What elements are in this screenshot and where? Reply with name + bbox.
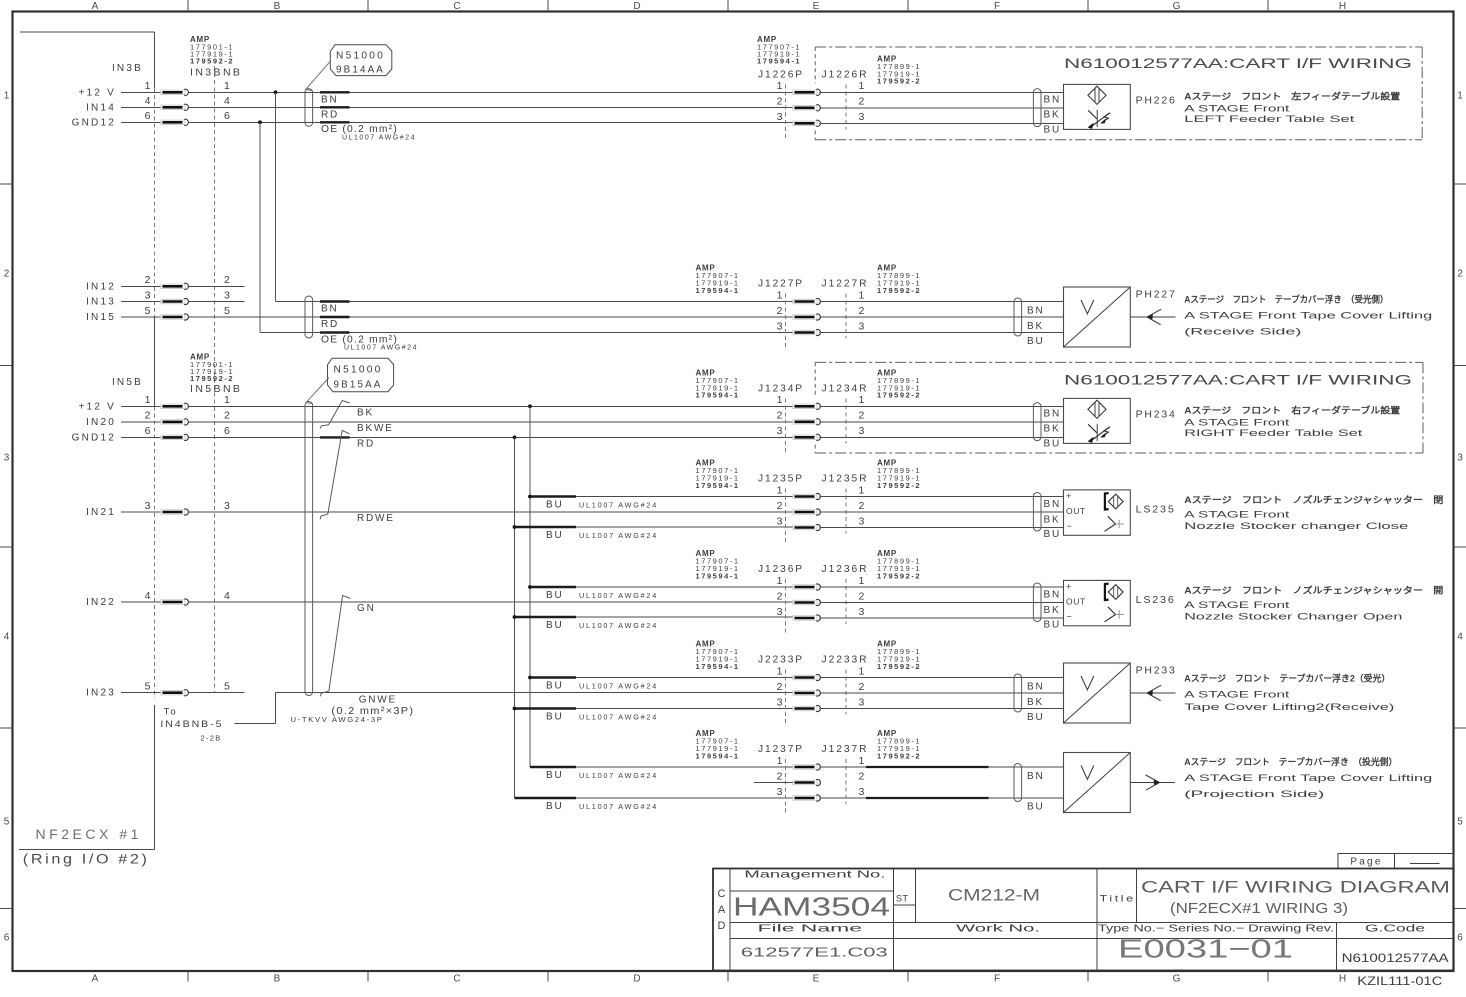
AMP part labels J1234P [696,368,740,399]
svg-text:2: 2 [145,410,151,422]
svg-text:179592-2: 179592-2 [877,391,921,400]
svg-text:3: 3 [777,606,783,618]
svg-text:6: 6 [4,933,10,944]
svg-text:2: 2 [859,96,865,108]
svg-text:F: F [994,1,1000,12]
junction dot BU+ branch y677.5 [528,676,532,680]
bold BU lead y587 [530,586,576,588]
svg-text:5: 5 [145,305,151,317]
NF2ECX pin 5 (IN15) label and lead [86,305,230,323]
svg-text:1: 1 [1457,91,1463,102]
wire J1226 pin1 to sensor [820,91,1064,93]
svg-text:4: 4 [224,590,230,602]
svg-text:1: 1 [859,394,865,406]
svg-text:IN22: IN22 [86,597,116,608]
svg-text:A STAGE Front: A STAGE Front [1184,600,1290,611]
svg-text:J1226P: J1226P [758,69,804,81]
contact J1226P pin 1 [793,89,820,95]
svg-text:BU: BU [546,801,564,812]
bold wire lead BN block2 [320,300,350,302]
wire colour labels PH234 [1044,409,1062,450]
NF2ECX pin 3 (IN21) label and lead [86,500,230,518]
svg-text:Aステージ フロント 右フィーダテーブル設置: Aステージ フロント 右フィーダテーブル設置 [1184,404,1400,415]
svg-text:3: 3 [224,500,230,512]
svg-text:BU: BU [546,590,564,601]
connector J1236P dashed body [785,579,787,634]
svg-text:UL1007 AWG#24: UL1007 AWG#24 [579,591,658,600]
pin numbers J2233P pin 2 [777,681,865,693]
svg-text:+: + [1066,582,1071,592]
contact J2233P pin 1 [793,674,820,680]
wire GND12 to J1226P pin3 [188,121,793,123]
svg-text:Tape Cover Lifting2(Receive): Tape Cover Lifting2(Receive) [1184,702,1394,713]
page number box [1338,854,1454,869]
svg-text:6: 6 [145,425,151,437]
bold wire lead RD block3 [320,436,350,438]
svg-text:(Projection Side): (Projection Side) [1184,789,1324,800]
svg-text:Title: Title [1100,893,1136,904]
frame column ticks bottom [188,971,1268,982]
frame row numbers right [1457,91,1463,944]
wire BN to J1227P pin1 [276,301,794,303]
wire vertical GND12 to OE J1227 [259,122,261,332]
svg-text:G.Code: G.Code [1365,923,1425,935]
wire J1235 pin1 to sensor [820,496,1064,498]
svg-text:3: 3 [224,289,230,301]
pin numbers J1227P pin 3 [777,320,865,332]
contact J1237P pin 2 [793,779,820,785]
drawing title CART I/F WIRING DIAGRAM [1141,878,1450,918]
wire IN14 to J1226P pin2 [188,106,793,108]
svg-text:E: E [813,1,820,12]
svg-text:3: 3 [777,696,783,708]
description PH233 english [1184,689,1394,713]
label CAD [718,888,726,932]
svg-text:A: A [92,974,99,985]
NF2ECX connector body dashed line left lower [154,406,156,698]
svg-text:BU: BU [1027,336,1045,347]
svg-text:A STAGE Front: A STAGE Front [1184,418,1290,429]
junction dot BU+ branch y496.5 [528,495,532,499]
svg-text:1: 1 [859,484,865,496]
svg-text:IN15: IN15 [86,312,116,323]
svg-text:BK: BK [1044,110,1061,121]
title block outline [713,869,1454,971]
wire IN22 to J1236P pin2 [188,601,793,603]
svg-text:1: 1 [859,289,865,301]
contact J1227P pin 1 [793,298,820,304]
svg-text:UL1007 AWG#24: UL1007 AWG#24 [579,621,658,630]
pin numbers J1236P pin 2 [777,590,865,602]
pin numbers J1235P pin 3 [777,515,865,527]
contact J2233P pin 3 [793,705,820,711]
svg-text:6: 6 [224,110,230,122]
svg-text:2: 2 [859,500,865,512]
wire J1226 pin2 to sensor [820,107,1064,109]
svg-text:4: 4 [145,95,151,107]
wire J1236 pin3 to sensor [820,617,1064,619]
svg-text:F: F [994,974,1000,985]
svg-text:NF2ECX #1: NF2ECX #1 [36,827,143,842]
connector J1234R dashed body [845,398,847,443]
svg-text:A STAGE Front: A STAGE Front [1184,104,1290,115]
svg-text:BN: BN [1027,771,1045,782]
svg-text:3: 3 [145,500,151,512]
AMP part labels J1236P [696,549,740,580]
contact J1236P pin 1 [793,584,820,590]
svg-text:C: C [453,1,460,12]
label To IN4BNB-5 [160,707,223,743]
frame column letters bottom [92,974,1346,985]
junction dot BU+ branch y587 [528,585,532,589]
AMP part labels J1226R [877,54,921,85]
label BU UL1007 AWG#24 y767 [546,770,658,781]
svg-text:1: 1 [777,575,783,587]
svg-text:RD: RD [357,438,375,449]
pin numbers J1234P pin 3 [777,425,865,437]
svg-text:2: 2 [859,590,865,602]
AMP part labels J1227R [877,264,921,295]
junction dot BU- branch y527 [513,525,517,529]
svg-text:5: 5 [145,681,151,693]
svg-text:D: D [718,920,726,932]
svg-text:IN3BNB: IN3BNB [190,67,242,79]
amplifier sensor PH227 box [1064,287,1131,347]
label BU UL1007 AWG#24 y496.5 [546,499,658,510]
svg-text:(Receive Side): (Receive Side) [1184,327,1301,338]
connector J1234P dashed body [785,398,787,453]
svg-text:179592-2: 179592-2 [877,286,921,295]
label GNWE cable spec [291,695,415,724]
svg-text:9B15AA: 9B15AA [334,378,383,390]
svg-text:2: 2 [859,410,865,422]
svg-text:PH234: PH234 [1136,409,1177,421]
label OE (0.2 mm2) block2 [321,335,418,352]
label BU UL1007 AWG#24 y587 [546,590,658,601]
bold BU lead y677.5 [530,676,576,678]
svg-text:J2233P: J2233P [758,654,804,666]
leader from balloon to cable block1 [306,61,331,91]
NF2ECX pin 1 (+12 V) label and lead [79,80,230,98]
junction dot +12V row3 distribution [528,404,532,408]
description PH226 english [1184,104,1355,126]
AMP part labels J1235R [877,459,921,490]
svg-text:1: 1 [777,665,783,677]
cable bundle at PH234 [1033,403,1041,441]
svg-text:BU: BU [546,530,564,541]
svg-text:File Name: File Name [758,923,863,935]
wire J2233 pin1 to sensor [820,677,1064,679]
wire IN12 stub [188,285,244,287]
svg-text:Nozzle Stocker Changer Open: Nozzle Stocker Changer Open [1184,612,1402,623]
svg-text:IN23: IN23 [86,688,116,699]
contact J1235P pin 2 [793,509,820,515]
svg-text:179594-1: 179594-1 [696,391,740,400]
svg-text:1: 1 [859,665,865,677]
NF2ECX pin 6 (GND12) label and lead [72,425,230,443]
svg-text:BU: BU [1027,801,1045,812]
svg-text:J1226R: J1226R [822,69,869,81]
svg-text:179592-2: 179592-2 [877,481,921,490]
svg-text:Management No.: Management No. [744,868,885,880]
svg-text:3: 3 [859,515,865,527]
AMP part labels J1234R [877,368,921,399]
wire J1234 pin3 to sensor [820,436,1064,438]
svg-text:2: 2 [777,681,783,693]
contact pin 3 IN13 [161,298,188,304]
svg-text:IN4BNB-5: IN4BNB-5 [160,719,223,730]
connector J1227R dashed body [845,294,847,339]
frame column letters top [92,1,1346,12]
svg-text:Work No.: Work No. [956,923,1040,935]
svg-text:5: 5 [1457,817,1463,828]
svg-text:GND12: GND12 [72,117,116,128]
svg-text:UL1007 AWG#24: UL1007 AWG#24 [579,531,658,540]
svg-text:A STAGE Front Tape Cover Lifti: A STAGE Front Tape Cover Lifting [1184,773,1432,784]
svg-text:3: 3 [777,111,783,123]
contact J1237P pin 3 [793,795,820,801]
svg-text:179594-1: 179594-1 [696,286,740,295]
svg-text:BN: BN [1027,305,1045,316]
svg-text:GND12: GND12 [72,432,116,443]
svg-text:5: 5 [224,681,230,693]
pin numbers J1237P pin 3 [777,786,865,798]
svg-text:Page: Page [1350,857,1382,868]
wire colour labels projection sensor [1027,771,1045,813]
svg-text:(Ring I/O #2): (Ring I/O #2) [23,852,150,867]
svg-text:N610012577AA:CART I/F WIRING: N610012577AA:CART I/F WIRING [1064,371,1412,387]
svg-text:2: 2 [777,96,783,108]
svg-text:RDWE: RDWE [357,513,395,524]
svg-text:C: C [453,974,460,985]
svg-text:4: 4 [145,590,151,602]
svg-text:2-2B: 2-2B [201,734,222,743]
wire J1235 pin3 to sensor [820,527,1064,529]
svg-text:1: 1 [145,394,151,406]
projection arrow out of sensor [1130,775,1175,790]
bold BU lead y496.5 [530,495,576,497]
svg-text:4: 4 [1457,632,1463,643]
leader from balloon to cable block3 [306,378,329,404]
svg-text:179594-1: 179594-1 [696,571,740,580]
AMP part labels J1226P [757,35,801,66]
svg-text:2: 2 [859,681,865,693]
svg-text:N51000: N51000 [336,50,385,62]
junction dot GND12 branch [258,120,262,124]
frame row numbers left [4,91,10,944]
pin numbers J1236P pin 1 [777,575,865,587]
svg-text:3: 3 [859,696,865,708]
wire IN13 stub [188,301,244,303]
svg-text:BU: BU [1044,620,1062,631]
label BU UL1007 AWG#24 y798 [546,801,658,812]
svg-text:IN5B: IN5B [112,377,143,388]
wire J1235 pin2 to sensor [820,511,1064,513]
svg-text:Aステージ フロント テープカバー浮き （受光側）: Aステージ フロント テープカバー浮き （受光側） [1184,294,1388,305]
svg-text:+: + [1066,491,1071,501]
limit sensor LS235 box [1064,490,1131,535]
bold wire lead RD block1 [320,106,350,108]
cable bundle symbol block1 [305,89,313,127]
photo sensor PH234 box [1064,398,1131,443]
svg-text:UL1007 AWG#24: UL1007 AWG#24 [579,802,658,811]
contact J1227P pin 2 [793,314,820,320]
svg-text:A STAGE Front: A STAGE Front [1184,510,1290,521]
wire J1237 pin2 stub [754,782,793,784]
svg-text:179592-2: 179592-2 [877,77,921,86]
svg-text:179594-1: 179594-1 [757,57,801,66]
svg-text:4: 4 [4,632,10,643]
svg-text:UL1007 AWG#24: UL1007 AWG#24 [579,771,658,780]
bold wire lead RD block2 [320,316,350,318]
svg-text:3: 3 [1457,453,1463,464]
svg-text:+12 V: +12 V [79,401,116,412]
svg-text:BK: BK [1044,605,1061,616]
junction dot GND12 row3 distribution [513,436,517,440]
svg-text:5: 5 [224,305,230,317]
pin numbers J2233P pin 1 [777,665,865,677]
svg-text:2: 2 [777,410,783,422]
svg-text:BU: BU [546,770,564,781]
NF2ECX pin 4 (IN14) label and lead [86,95,230,113]
svg-text:RD: RD [321,319,339,330]
svg-text:J1237P: J1237P [758,743,804,755]
svg-text:CART I/F WIRING DIAGRAM: CART I/F WIRING DIAGRAM [1141,878,1450,897]
NF2ECX connector body dashed line right [214,66,216,692]
svg-text:3: 3 [4,453,10,464]
pin numbers J1237P pin 1 [777,755,865,767]
contact J1235P pin 3 [793,524,820,530]
contact J2233P pin 2 [793,690,820,696]
svg-text:G: G [1173,974,1181,985]
svg-text:J1236R: J1236R [822,563,869,575]
cable bundle at LS235 [1033,493,1041,531]
svg-text:A STAGE Front: A STAGE Front [1184,689,1290,700]
svg-text:BN: BN [321,94,339,105]
svg-text:BU: BU [1044,125,1062,136]
svg-text:J1234P: J1234P [758,383,804,395]
svg-text:BU: BU [546,499,564,510]
svg-text:3: 3 [859,111,865,123]
wire BU+ branch to connector y496.5 [530,496,793,498]
svg-text:6: 6 [1457,933,1463,944]
wire branch from IN4BNB-5 [235,693,276,724]
connector J1237R dashed body [845,759,847,804]
svg-text:1: 1 [777,484,783,496]
svg-text:2: 2 [224,274,230,286]
wire J1227 pin1 to sensor [820,301,1064,303]
svg-text:6: 6 [224,425,230,437]
svg-text:1: 1 [777,394,783,406]
contact pin 5 IN23 [161,690,188,696]
AMP part labels J2233P [696,640,740,671]
svg-text:E0031−01: E0031−01 [1118,933,1293,963]
I/O module NF2ECX #1 outline [19,32,155,849]
svg-text:BKWE: BKWE [357,423,394,434]
svg-text:+12 V: +12 V [79,87,116,98]
svg-text:3: 3 [859,425,865,437]
bold BU lead y798 [515,797,577,799]
bold cable segment J1237 BN [866,766,989,768]
svg-text:Aステージ フロント テープカバー浮き （投光側）: Aステージ フロント テープカバー浮き （投光側） [1184,756,1397,767]
svg-text:UL1007 AWG#24: UL1007 AWG#24 [579,681,658,690]
cable tag balloon N51000 9B15AA [328,358,394,391]
connector J1236R dashed body [845,579,847,624]
contact pin 1 +12 V [161,403,188,409]
svg-text:To: To [164,707,178,718]
description LS236 english [1184,600,1402,622]
wire colour labels LS235 [1044,499,1062,540]
cable bundle at PH226 [1033,89,1041,127]
bold wire lead BN block1 [320,91,350,93]
contact pin 3 IN21 [161,509,188,515]
svg-text:Aステージ フロント ノズルチェンジャシャッター 開: Aステージ フロント ノズルチェンジャシャッター 開 [1184,584,1443,595]
svg-text:N610012577AA: N610012577AA [1342,951,1449,965]
bold BU lead y617 [515,616,577,618]
wire colour labels LS236 [1044,589,1062,630]
description PH234 english [1184,418,1363,440]
svg-text:2: 2 [859,770,865,782]
svg-text:9B14AA: 9B14AA [336,64,385,76]
svg-text:1: 1 [859,80,865,92]
pin numbers J1235P pin 1 [777,484,865,496]
pin numbers J1227P pin 2 [777,305,865,317]
wire vertical GND12 distribution BU [514,437,516,798]
svg-text:OUT: OUT [1066,597,1086,607]
svg-text:BK: BK [1044,514,1061,525]
wire GND12 row3 to J1234P pin3 [188,436,793,438]
svg-text:N610012577AA:CART I/F WIRING: N610012577AA:CART I/F WIRING [1064,55,1412,71]
wire colour labels PH227 [1027,305,1045,347]
svg-text:BU: BU [546,680,564,691]
bold BU lead y767 [530,766,576,768]
pin numbers J1226P pin 1 [777,80,865,92]
svg-text:J1234R: J1234R [822,383,869,395]
svg-text:2: 2 [224,410,230,422]
wire J1234 pin2 to sensor [820,421,1064,423]
svg-text:Aステージ フロント ノズルチェンジャシャッター 閉: Aステージ フロント ノズルチェンジャシャッター 閉 [1184,494,1443,505]
svg-text:A STAGE Front Tape Cover Lifti: A STAGE Front Tape Cover Lifting [1184,311,1432,322]
wire BU+ branch to connector y767 [530,766,793,768]
wire J1237 pin1 to sensor [820,766,1064,768]
svg-text:J1227P: J1227P [758,278,804,290]
bold wire lead OE block1 [320,121,350,123]
amplifier sensor projection box [1064,753,1131,813]
wire vertical +12V distribution BU [529,406,531,767]
svg-text:CM212-M: CM212-M [948,885,1040,904]
pin numbers J1235P pin 2 [777,500,865,512]
svg-text:179592-2: 179592-2 [190,374,234,383]
svg-text:1: 1 [777,755,783,767]
svg-text:BN: BN [1044,589,1062,600]
bold cable segment J1237 BU [866,797,989,799]
bold wire lead OE block2 [320,331,350,333]
NF2ECX pin 2 (IN12) label and lead [86,274,230,292]
svg-text:179592-2: 179592-2 [877,662,921,671]
svg-text:BN: BN [1044,95,1062,106]
svg-text:1: 1 [145,80,151,92]
wire IN21 to J1235P pin2 [188,511,793,513]
wire J1227 pin3 to sensor [820,332,1064,334]
wire J2233 pin2 to sensor [820,692,1064,694]
svg-text:IN3B: IN3B [112,63,143,74]
svg-text:Aステージ フロント テープカバー浮き2（受光）: Aステージ フロント テープカバー浮き2（受光） [1184,673,1390,684]
AMP part labels IN3BNB connector [190,35,242,79]
svg-text:BN: BN [1027,681,1045,692]
svg-text:BK: BK [1027,321,1044,332]
bold BU lead y527 [515,526,577,528]
svg-text:−: − [1067,521,1072,531]
